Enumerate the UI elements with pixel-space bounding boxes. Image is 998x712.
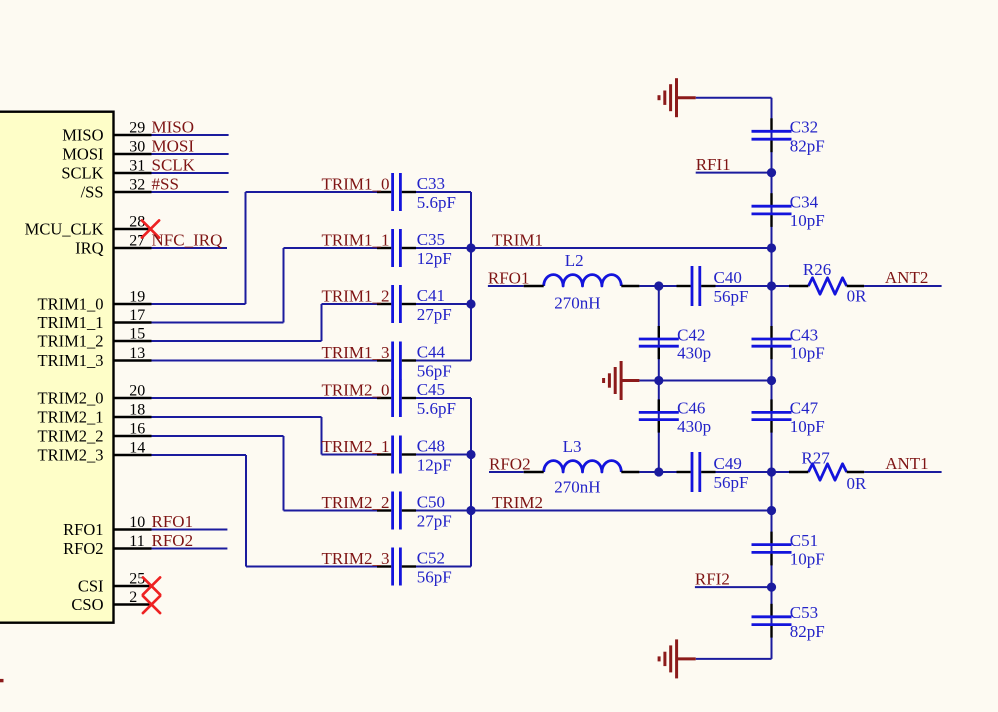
svg-text:RFO1: RFO1 <box>488 269 530 288</box>
svg-text:CSI: CSI <box>78 577 104 596</box>
svg-text:#SS: #SS <box>152 175 179 194</box>
svg-text:TRIM2_1: TRIM2_1 <box>322 437 390 456</box>
svg-text:C33: C33 <box>417 174 445 193</box>
svg-text:56pF: 56pF <box>714 287 749 306</box>
svg-text:31: 31 <box>129 158 145 175</box>
svg-text:C41: C41 <box>417 286 445 305</box>
svg-text:C45: C45 <box>417 380 445 399</box>
svg-text:RFO1: RFO1 <box>63 520 103 539</box>
svg-text:2: 2 <box>129 589 137 606</box>
svg-text:TRIM1_0: TRIM1_0 <box>322 175 390 194</box>
svg-text:TRIM2_2: TRIM2_2 <box>322 493 390 512</box>
svg-text:82pF: 82pF <box>790 622 825 641</box>
svg-text:17: 17 <box>129 307 145 324</box>
svg-text:TRIM1: TRIM1 <box>492 231 543 250</box>
svg-text:L3: L3 <box>563 437 582 456</box>
svg-text:56pF: 56pF <box>417 568 452 587</box>
svg-text:L2: L2 <box>565 251 584 270</box>
svg-text:TRIM1_1: TRIM1_1 <box>322 231 390 250</box>
svg-text:C47: C47 <box>790 399 819 418</box>
svg-text:56pF: 56pF <box>714 473 749 492</box>
svg-text:29: 29 <box>129 120 145 137</box>
svg-text:C32: C32 <box>790 118 818 137</box>
svg-text:C43: C43 <box>790 325 818 344</box>
svg-text:TRIM2: TRIM2 <box>492 493 543 512</box>
svg-text:TRIM2_3: TRIM2_3 <box>38 446 104 465</box>
svg-text:C51: C51 <box>790 531 818 550</box>
svg-text:16: 16 <box>129 421 145 438</box>
svg-text:TRIM2_1: TRIM2_1 <box>38 408 104 427</box>
svg-text:C49: C49 <box>714 454 742 473</box>
svg-text:SCLK: SCLK <box>152 156 196 175</box>
svg-text:SCLK: SCLK <box>61 164 103 183</box>
svg-text:10pF: 10pF <box>790 344 825 363</box>
svg-text:/SS: /SS <box>81 183 104 202</box>
svg-text:C40: C40 <box>714 268 742 287</box>
svg-text:270nH: 270nH <box>554 478 600 497</box>
svg-text:11: 11 <box>129 533 144 550</box>
svg-text:0R: 0R <box>847 474 868 493</box>
svg-text:10pF: 10pF <box>790 550 825 569</box>
svg-text:MISO: MISO <box>62 126 103 145</box>
svg-text:C42: C42 <box>677 325 705 344</box>
svg-text:10: 10 <box>129 514 145 531</box>
svg-text:0R: 0R <box>847 287 868 306</box>
svg-text:CSO: CSO <box>71 595 103 614</box>
svg-text:13: 13 <box>129 345 145 362</box>
svg-text:MOSI: MOSI <box>62 145 103 164</box>
svg-text:C35: C35 <box>417 230 445 249</box>
svg-text:TRIM1_3: TRIM1_3 <box>322 343 390 362</box>
svg-text:18: 18 <box>129 402 145 419</box>
svg-text:C34: C34 <box>790 193 819 212</box>
svg-text:27pF: 27pF <box>417 512 452 531</box>
svg-text:C48: C48 <box>417 437 445 456</box>
svg-text:RFO2: RFO2 <box>63 539 103 558</box>
svg-text:C53: C53 <box>790 603 818 622</box>
svg-text:RFO1: RFO1 <box>152 512 194 531</box>
svg-text:R26: R26 <box>803 260 831 279</box>
svg-text:12pF: 12pF <box>417 249 452 268</box>
svg-text:56pF: 56pF <box>417 362 452 381</box>
svg-text:TRIM1_0: TRIM1_0 <box>38 295 104 314</box>
svg-text:RFO2: RFO2 <box>489 455 531 474</box>
svg-text:TRIM2_0: TRIM2_0 <box>322 381 390 400</box>
svg-text:RFI2: RFI2 <box>695 570 730 589</box>
svg-text:430p: 430p <box>677 344 711 363</box>
svg-text:15: 15 <box>129 326 145 343</box>
svg-text:IRQ: IRQ <box>75 239 104 258</box>
svg-text:270nH: 270nH <box>554 293 600 312</box>
svg-text:5.6pF: 5.6pF <box>417 193 456 212</box>
svg-text:MISO: MISO <box>152 118 195 137</box>
svg-text:C44: C44 <box>417 343 446 362</box>
svg-text:430p: 430p <box>677 417 711 436</box>
svg-text:5.6pF: 5.6pF <box>417 399 456 418</box>
svg-text:27pF: 27pF <box>417 305 452 324</box>
svg-text:NFC_IRQ: NFC_IRQ <box>152 231 223 250</box>
svg-text:12pF: 12pF <box>417 456 452 475</box>
svg-text:32: 32 <box>129 177 145 194</box>
svg-text:19: 19 <box>129 289 145 306</box>
svg-text:RFI1: RFI1 <box>696 155 731 174</box>
svg-text:MOSI: MOSI <box>152 137 195 156</box>
svg-text:82pF: 82pF <box>790 137 825 156</box>
svg-text:RFO2: RFO2 <box>152 531 194 550</box>
svg-text:30: 30 <box>129 139 145 156</box>
svg-text:C52: C52 <box>417 549 445 568</box>
svg-text:R27: R27 <box>801 449 830 468</box>
svg-text:ANT2: ANT2 <box>885 268 928 287</box>
svg-text:MCU_CLK: MCU_CLK <box>25 220 104 239</box>
svg-text:10pF: 10pF <box>790 417 825 436</box>
svg-text:20: 20 <box>129 383 145 400</box>
svg-text:TRIM2_3: TRIM2_3 <box>322 549 390 568</box>
svg-text:TRIM1_2: TRIM1_2 <box>322 287 390 306</box>
svg-text:TRIM2_2: TRIM2_2 <box>38 427 104 446</box>
svg-text:ANT1: ANT1 <box>885 454 928 473</box>
svg-text:14: 14 <box>129 440 145 457</box>
svg-text:10pF: 10pF <box>790 211 825 230</box>
svg-text:TRIM1_1: TRIM1_1 <box>38 313 104 332</box>
svg-text:TRIM1_3: TRIM1_3 <box>38 351 104 370</box>
svg-text:C50: C50 <box>417 493 445 512</box>
svg-text:C46: C46 <box>677 399 705 418</box>
svg-text:TRIM2_0: TRIM2_0 <box>38 389 104 408</box>
svg-text:TRIM1_2: TRIM1_2 <box>38 332 104 351</box>
